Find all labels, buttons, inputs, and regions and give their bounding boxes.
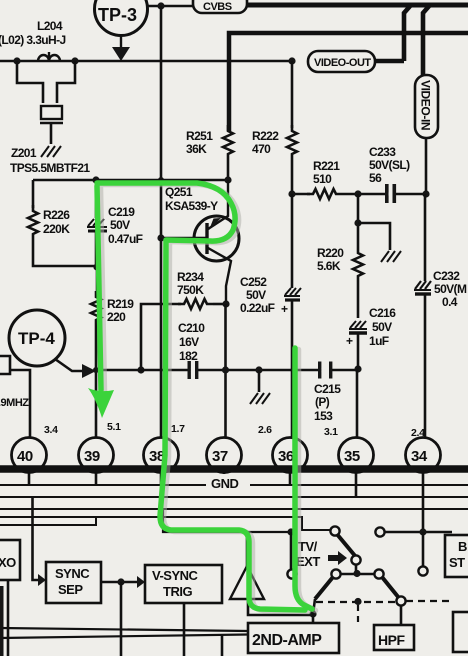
svg-text:50V(M: 50V(M	[434, 282, 467, 296]
svg-text:+: +	[281, 302, 288, 316]
dashed link down	[357, 605, 359, 624]
svg-text:5.1: 5.1	[107, 421, 121, 433]
svg-text:C232: C232	[433, 269, 460, 283]
svg-text:(L02) 3.3uH-J: (L02) 3.3uH-J	[0, 33, 66, 47]
switch contact E left	[287, 569, 296, 578]
pin 39	[79, 438, 114, 473]
svg-text:750K: 750K	[177, 283, 204, 297]
svg-text:C219: C219	[108, 205, 135, 219]
svg-text:SEP: SEP	[58, 582, 83, 597]
capacitor C252	[284, 194, 301, 437]
pin 38	[144, 438, 179, 473]
pin 34	[406, 438, 441, 473]
wire below 2ND-AMP	[221, 635, 224, 656]
node dot left of L204	[13, 57, 20, 64]
wire into 2ND-AMP	[312, 614, 315, 623]
svg-text:50V: 50V	[110, 218, 130, 232]
transistor Q251	[194, 180, 239, 304]
node (358,194)	[354, 190, 361, 197]
node video junction x292	[288, 57, 295, 64]
svg-text:1.7: 1.7	[171, 423, 185, 435]
green loop trace	[97, 183, 305, 610]
wire SYNC SEP out	[101, 581, 138, 584]
green arrow trace	[97, 186, 101, 390]
terminal VIDEO-OUT	[308, 5, 411, 72]
wire row y574	[340, 573, 375, 576]
svg-text:R220: R220	[317, 246, 344, 260]
svg-text:153: 153	[314, 409, 333, 423]
svg-text:+: +	[346, 334, 353, 348]
switch contact G top right	[375, 527, 384, 536]
svg-text:TP-3: TP-3	[98, 5, 137, 25]
node (291,532)	[287, 528, 294, 535]
switch contact A	[330, 526, 339, 535]
wire CVBS column down	[160, 6, 163, 238]
wire pin34 column to contact H	[422, 532, 425, 566]
wire G to pin34 column	[385, 531, 452, 534]
capacitor C232	[414, 194, 431, 437]
svg-text:2ND-AMP: 2ND-AMP	[252, 632, 322, 649]
wire Q base to column	[161, 237, 194, 240]
box XO	[0, 540, 20, 580]
wire TP-3 to CVBS	[148, 5, 193, 8]
svg-text:0.22uF: 0.22uF	[240, 301, 275, 315]
svg-text:.9MHZ: .9MHZ	[0, 397, 29, 409]
switch blade 2	[315, 577, 333, 599]
svg-text:XO: XO	[0, 555, 16, 570]
capacitor C215	[318, 362, 332, 379]
svg-text:56: 56	[369, 171, 382, 185]
svg-text:50V: 50V	[372, 320, 392, 334]
capacitor C216	[349, 321, 367, 369]
svg-text:TPS5.5MBTF21: TPS5.5MBTF21	[10, 161, 90, 175]
svg-text:KSA539-Y: KSA539-Y	[165, 199, 218, 213]
resistor R234	[141, 299, 226, 370]
green arrowhead	[88, 388, 114, 418]
connector J left	[0, 356, 10, 374]
amplifier triangle	[230, 532, 264, 599]
IC internal line 2	[0, 496, 468, 498]
IC internal line 4	[0, 517, 330, 530]
svg-text:C210: C210	[178, 321, 205, 335]
resistor R251	[223, 125, 233, 160]
terminal VIDEO-IN	[415, 5, 438, 194]
node (141,370)	[137, 366, 144, 373]
green branch C215 to switch	[295, 348, 312, 609]
svg-text:35: 35	[344, 448, 360, 465]
svg-text:510: 510	[313, 172, 332, 186]
capacitor C219	[87, 180, 107, 267]
svg-text:C215: C215	[314, 382, 341, 396]
svg-text:Z201: Z201	[11, 146, 37, 160]
ground hatch Z201	[41, 146, 61, 157]
ground at 390	[358, 223, 401, 262]
svg-text:(P): (P)	[315, 395, 330, 409]
svg-text:0.47uF: 0.47uF	[108, 232, 143, 246]
box bottom right	[453, 612, 468, 652]
wire down to switch left contact	[290, 532, 293, 569]
svg-text:HPF: HPF	[378, 632, 405, 648]
switch contact D	[374, 569, 383, 578]
arrow into V-SYNC	[137, 576, 145, 588]
svg-text:SYNC: SYNC	[55, 566, 90, 581]
wire L204 right lead down	[57, 61, 75, 103]
wire junction down	[120, 582, 123, 656]
node (358,223)	[354, 219, 361, 226]
svg-text:0.4: 0.4	[442, 295, 458, 309]
box V-SYNC TRIG	[145, 565, 222, 603]
wire pin35 column	[356, 369, 359, 437]
node CVBS junction	[157, 2, 164, 9]
svg-text:50V: 50V	[246, 288, 266, 302]
arrow into SYNC SEP	[38, 574, 46, 586]
bus thick line 2	[229, 33, 468, 131]
resistor R220	[353, 247, 363, 318]
capacitor C210	[188, 361, 199, 379]
dashed link right	[406, 600, 452, 602]
node (228,180)	[224, 176, 231, 183]
TV/EXT arrow	[328, 551, 347, 565]
wire to switch line	[163, 509, 291, 532]
svg-text:37: 37	[212, 448, 228, 465]
box SYNC SEP	[46, 562, 101, 603]
wire signal row y370	[96, 369, 358, 372]
resistor R221 row	[292, 189, 385, 199]
wire contact B down	[355, 564, 358, 573]
wire R220 branch	[357, 194, 360, 247]
bottom rail 2	[0, 635, 248, 639]
wire main horizontal top y=61	[0, 60, 292, 63]
svg-text:R222: R222	[252, 129, 279, 143]
inductor L204	[38, 52, 60, 61]
svg-text:R219: R219	[107, 297, 134, 311]
resistor R219	[91, 267, 101, 437]
pin 36	[273, 438, 308, 473]
svg-text:R226: R226	[43, 208, 70, 222]
svg-text:TRIG: TRIG	[163, 584, 192, 599]
node (423,532)	[419, 528, 426, 535]
pin stubs below	[29, 473, 423, 532]
node (426,194)	[422, 190, 429, 197]
wire y180 from R226 top to Q emitter	[33, 179, 228, 182]
wire V-SYNC bottom down	[183, 603, 186, 656]
svg-text:16V: 16V	[179, 335, 199, 349]
svg-text:R234: R234	[177, 270, 204, 284]
green trace soft shadow	[101, 185, 316, 612]
left edge scan marks	[0, 586, 4, 656]
resistor R222	[287, 61, 297, 194]
terminal CVBS	[193, 0, 247, 13]
switch contact F	[396, 596, 405, 605]
svg-text:40: 40	[17, 448, 33, 465]
svg-text:GND: GND	[211, 476, 239, 491]
svg-text:2.6: 2.6	[258, 424, 272, 436]
svg-text:R251: R251	[186, 129, 213, 143]
node (96,370)	[93, 367, 99, 373]
wire XO down	[7, 580, 10, 656]
green highlight overlay	[97, 183, 312, 610]
wire L204 left lead down	[17, 61, 43, 103]
svg-text:34: 34	[411, 448, 428, 465]
test point TP-4	[9, 310, 96, 378]
switch contact H	[418, 566, 427, 575]
svg-text:TP-4: TP-4	[18, 329, 55, 348]
svg-text:1uF: 1uF	[369, 334, 389, 348]
label GND	[206, 474, 250, 491]
svg-text:L204: L204	[37, 19, 63, 33]
svg-text:CVBS: CVBS	[203, 1, 232, 13]
wire contact F to HPF	[400, 606, 403, 625]
svg-text:V-SYNC: V-SYNC	[152, 568, 199, 583]
wire R251 to node	[227, 160, 230, 180]
wire collector column to pin37	[224, 304, 227, 437]
node (259,370)	[255, 366, 262, 373]
test point TP-3	[95, 0, 148, 61]
wire blade2 to node	[313, 599, 315, 614]
svg-text:220K: 220K	[43, 222, 70, 236]
IC internal line 3	[0, 508, 468, 510]
svg-text:36: 36	[278, 448, 294, 465]
wire J to pin40	[10, 370, 30, 437]
IC edge bar	[0, 465, 468, 473]
svg-text:5.6K: 5.6K	[317, 259, 341, 273]
switch blade 1	[336, 533, 356, 557]
wire C233 to VIDEO-IN column	[396, 193, 426, 196]
IC internal line 5	[0, 517, 96, 525]
ground at 259	[250, 370, 270, 404]
node (292,194)	[288, 190, 295, 197]
svg-text:VIDEO-OUT: VIDEO-OUT	[314, 57, 371, 69]
resistor R226	[28, 180, 97, 266]
node (121,582)	[117, 578, 124, 585]
IC internal line 1	[0, 484, 468, 486]
ceramic filter Z201	[40, 106, 63, 144]
capacitor C233	[385, 184, 396, 203]
box 2ND-AMP	[248, 623, 339, 653]
switch blade 3	[382, 577, 399, 598]
svg-text:36K: 36K	[186, 142, 207, 156]
svg-text:R221: R221	[313, 159, 340, 173]
node dot right of L204	[71, 57, 78, 64]
node (227,304)	[222, 300, 229, 307]
node (358,369)	[354, 365, 361, 372]
node base junction	[157, 234, 164, 241]
svg-text:3.1: 3.1	[324, 426, 338, 438]
IC pin circles row	[12, 438, 441, 473]
pin 37	[207, 438, 242, 473]
svg-text:C216: C216	[369, 306, 396, 320]
svg-text:220: 220	[107, 310, 126, 324]
svg-text:C233: C233	[369, 145, 396, 159]
box B ST	[445, 535, 468, 577]
node (358,601)	[354, 598, 361, 605]
node (96,180)	[92, 176, 99, 183]
wire base column down to pin38	[160, 238, 163, 437]
svg-text:VIDEO-IN: VIDEO-IN	[419, 80, 433, 130]
svg-text:470: 470	[252, 142, 271, 156]
svg-text:B: B	[458, 539, 467, 554]
wire amp output	[248, 599, 313, 615]
switch contact C	[331, 569, 340, 578]
node (313,614)	[309, 610, 316, 617]
bottom rail 1	[0, 628, 248, 631]
node (357,573)	[353, 570, 360, 577]
node (227,370)	[222, 366, 229, 373]
svg-text:2.4: 2.4	[411, 427, 425, 439]
pin 40	[12, 438, 47, 473]
bus thick line 1	[247, 3, 468, 8]
node y180 junction x162	[158, 177, 164, 183]
box HPF	[374, 625, 414, 650]
svg-text:3.4: 3.4	[44, 424, 58, 436]
sync chain input	[33, 497, 39, 580]
svg-text:182: 182	[179, 349, 198, 363]
switch contact B	[351, 555, 360, 564]
dashed link line	[316, 601, 396, 603]
pin 35	[339, 438, 374, 473]
svg-text:50V(SL): 50V(SL)	[369, 158, 410, 172]
svg-text:C252: C252	[240, 275, 267, 289]
node (97,267)	[93, 263, 100, 270]
svg-text:39: 39	[84, 448, 100, 465]
svg-text:ST: ST	[449, 555, 465, 570]
